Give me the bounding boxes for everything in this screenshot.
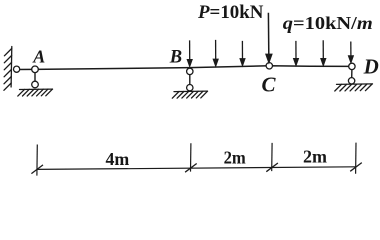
ground hatch B3	[182, 91, 189, 98]
dimension slash at D	[350, 163, 362, 172]
dimension tick at D	[355, 143, 357, 174]
ground hatch D4	[350, 84, 357, 91]
hinge D at beam end	[349, 63, 355, 69]
distributed load arrow q1	[187, 40, 192, 66]
ground hatch D3	[345, 84, 352, 91]
svg-text:2m: 2m	[224, 147, 246, 167]
wall hatch 3	[4, 63, 11, 70]
point load arrow P at C	[266, 13, 272, 63]
ground hatch D7	[365, 84, 372, 91]
distributed load arrow q5	[321, 40, 326, 65]
lower hinge of support B	[187, 85, 193, 91]
ground hatch B1	[172, 92, 179, 99]
wall hatch 2	[4, 56, 11, 63]
wall hatch 4	[4, 70, 11, 77]
link B to lower hinge	[189, 74, 191, 84]
distributed load arrow q4	[294, 41, 299, 65]
wall at left	[10, 47, 13, 88]
ground hatch B4	[187, 91, 194, 98]
ground hatch B7	[201, 91, 208, 98]
ground hatch A4	[32, 89, 39, 96]
dimension tick at C	[271, 143, 273, 171]
svg-text:C: C	[262, 72, 277, 96]
svg-text:P=10kN: P=10kN	[197, 2, 264, 23]
wall hatch 6	[4, 83, 11, 90]
ground hatch A5	[37, 89, 44, 96]
beam / wire A to D	[17, 66, 352, 70]
hinge A on beam	[32, 66, 39, 73]
svg-text:2m: 2m	[303, 146, 327, 166]
ground hatch B5	[192, 91, 199, 98]
ground hatch B2	[177, 92, 184, 99]
distributed load arrow q3	[240, 41, 245, 66]
ground line under B	[174, 90, 208, 93]
dimension line	[37, 167, 356, 170]
wall hatch 1	[4, 49, 11, 56]
dimension slash at A	[31, 165, 43, 174]
link D to lower hinge	[351, 69, 353, 77]
dimension tick at B	[190, 143, 192, 171]
lower hinge under A	[32, 81, 39, 88]
distributed load arrow q6 at D	[349, 42, 354, 63]
hinge C on beam	[266, 63, 272, 69]
link A to lower hinge	[34, 73, 36, 82]
ground hatch A3	[27, 89, 34, 96]
ground line under A	[20, 88, 53, 90]
ground line under D	[337, 83, 373, 86]
svg-text:q=10kN/m: q=10kN/m	[283, 13, 373, 33]
ground hatch D5	[355, 84, 362, 91]
hinge circle on wall link	[14, 66, 20, 72]
upper hinge of support B	[187, 68, 193, 74]
ground hatch A1	[18, 89, 25, 96]
dimension tick at A	[36, 145, 38, 176]
ground hatch D1	[335, 84, 342, 91]
svg-text:B: B	[169, 47, 182, 67]
svg-text:D: D	[363, 55, 379, 79]
svg-text:4m: 4m	[106, 149, 130, 169]
ground hatch D6	[360, 84, 367, 91]
ground hatch A6	[41, 89, 48, 96]
ground hatch B6	[196, 91, 203, 98]
dimension slash at B	[185, 164, 197, 173]
lower hinge of support D	[348, 78, 354, 84]
dimension slash at C	[266, 163, 278, 172]
distributed load arrow q2	[213, 40, 218, 66]
ground hatch D2	[340, 84, 347, 91]
ground hatch A2	[23, 89, 30, 96]
ground hatch A7	[46, 89, 53, 96]
wall hatch 5	[4, 77, 11, 84]
svg-text:A: A	[32, 46, 45, 66]
